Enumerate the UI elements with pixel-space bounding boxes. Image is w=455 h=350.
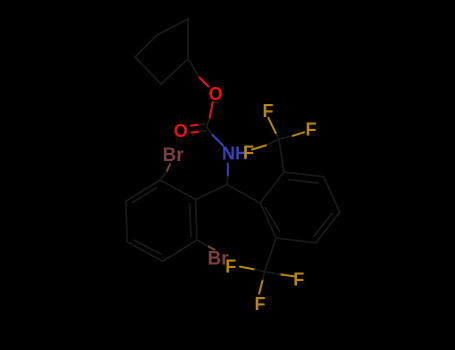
wire F d dark half <box>255 270 265 272</box>
wire F a dark half <box>276 134 279 139</box>
double bond C=O lower dark part <box>199 130 206 131</box>
svg-text:F: F <box>225 256 236 276</box>
wire Br top to ring maroon half <box>167 164 171 172</box>
wire F a gold half <box>268 118 276 135</box>
svg-text:O: O <box>209 84 223 104</box>
wire ring to CF3 bottom <box>265 238 277 272</box>
wire CH to left ring <box>196 185 227 200</box>
right ring inner double bond 3 <box>266 208 280 232</box>
double bond C=O upper red part <box>191 125 199 126</box>
right benzene ring bis-trifluoromethylphenyl <box>260 172 339 243</box>
wire F c dark half <box>267 139 279 145</box>
right ring inner double bond 2 <box>314 214 332 236</box>
svg-text:O: O <box>174 121 188 141</box>
wire N to CH blue half <box>227 164 229 177</box>
wire F e dark half <box>265 272 281 275</box>
cyclohexyl ring top <box>135 19 188 84</box>
wire F f dark half <box>263 272 265 280</box>
svg-text:F: F <box>243 143 254 163</box>
wire CH to right ring <box>227 185 260 204</box>
wire Br bottom to ring dark half <box>197 240 208 246</box>
wire F b gold half <box>292 132 305 136</box>
double bond C=O lower red part <box>191 132 199 133</box>
wire N to CH dark half <box>226 177 229 185</box>
svg-text:F: F <box>293 270 304 290</box>
wire ring to CF3 top <box>279 139 284 172</box>
wire Br bottom to ring maroon half <box>208 246 215 250</box>
svg-text:F: F <box>255 294 266 314</box>
wire O ester down to carbonyl C red half <box>210 102 213 119</box>
left benzene ring dibromophenyl <box>126 180 197 261</box>
right ring inner double bond 1 <box>289 180 319 184</box>
wire C-O ester dark half <box>188 59 200 78</box>
wire Br top to ring dark half <box>160 172 167 180</box>
wire O ester to ring red half <box>200 78 209 87</box>
wire F f gold half <box>259 280 263 294</box>
wire carbonyl C to N dark half <box>207 127 213 135</box>
wire F b dark half <box>279 136 292 139</box>
svg-text:F: F <box>306 120 317 140</box>
svg-text:Br: Br <box>163 145 185 166</box>
wire O ester down to carbonyl C dark half <box>207 119 210 126</box>
left ring inner double bond 3 <box>190 204 191 236</box>
wire F c gold half <box>252 145 267 150</box>
wire F d gold half <box>240 267 255 270</box>
double bond C=O upper dark part <box>199 123 205 126</box>
wire carbonyl C to N blue half <box>213 135 224 146</box>
wire F e gold half <box>280 274 294 276</box>
left ring inner double bond 1 <box>133 188 157 203</box>
left ring inner double bond 2 <box>134 240 161 254</box>
